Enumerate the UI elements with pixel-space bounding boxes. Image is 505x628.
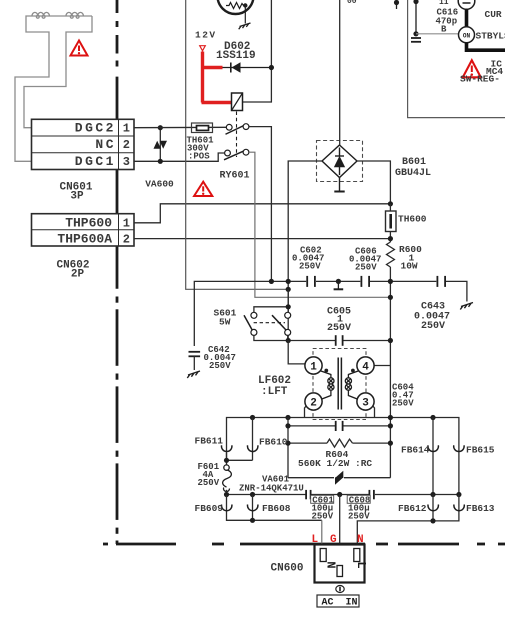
svg-text:250V: 250V	[198, 478, 220, 488]
label C602	[292, 246, 324, 272]
label C642	[204, 345, 236, 371]
resistor R600	[387, 242, 395, 267]
degauss coil L2	[66, 12, 83, 18]
label C606	[349, 247, 381, 273]
node y297 junction	[388, 295, 393, 300]
svg-text:FB612: FB612	[398, 503, 427, 514]
wire bridge top AC input	[339, 0, 341, 145]
svg-text:560K 1/2W :RC: 560K 1/2W :RC	[298, 458, 372, 469]
LF602 pin 4	[357, 357, 374, 374]
capacitor C643	[437, 276, 445, 287]
wire bridge right output	[357, 161, 390, 204]
svg-text:FB609: FB609	[195, 503, 224, 514]
wire DGC1 pin3 to RY601 switch2	[134, 153, 225, 161]
ferrite bead FB610	[248, 418, 258, 461]
transformer LF602 dashed box	[313, 349, 366, 420]
label F601 4A 250V	[198, 462, 220, 488]
svg-text:SW-REG-: SW-REG-	[460, 74, 500, 85]
wire left rail x288	[287, 418, 289, 478]
svg-text:1: 1	[310, 362, 317, 374]
capacitor C602	[307, 276, 315, 287]
wire 12V red feed	[202, 52, 232, 103]
partial text fragments at top edge	[347, 0, 449, 7]
node y281 junctions	[269, 279, 274, 284]
wire pin2 connection down	[305, 406, 307, 418]
label IC MC4 SW-REG	[460, 59, 503, 85]
bridge rectifier B601 dashed box	[317, 141, 363, 182]
svg-text:1SS119: 1SS119	[216, 50, 256, 62]
node y417 junctions	[250, 415, 255, 420]
varistor VA600	[154, 125, 168, 164]
wire CN600 G feed	[339, 495, 341, 566]
wire 12V switched line (x271)	[243, 0, 272, 102]
label C643	[414, 302, 450, 333]
label CN601 3P	[59, 182, 92, 203]
label LF602 :LFT	[258, 375, 291, 398]
svg-text:2: 2	[310, 398, 317, 410]
svg-text:DGC1: DGC1	[75, 154, 116, 169]
svg-text:250V: 250V	[421, 321, 445, 332]
svg-text:FB613: FB613	[466, 503, 495, 514]
wire filter line y281	[194, 281, 467, 346]
LF602 pin 2	[305, 393, 322, 410]
capacitor C616	[411, 0, 421, 42]
svg-text:10W: 10W	[401, 261, 418, 272]
svg-text:B601: B601	[402, 157, 426, 168]
node C605 ends	[286, 338, 291, 343]
thick wire pin to STBY circle	[465, 10, 469, 28]
label C608 100u 250V (boxed)	[347, 495, 370, 521]
LF602 pin 3	[357, 393, 374, 410]
svg-text:GBU4JL: GBU4JL	[395, 168, 431, 179]
label TH601 300V :POS	[187, 136, 215, 162]
svg-text:DGC2: DGC2	[75, 121, 116, 136]
svg-text:NC: NC	[95, 137, 116, 152]
ferrite bead FB614	[428, 418, 438, 495]
svg-text:4: 4	[362, 362, 369, 374]
degauss coil loop wiring	[15, 16, 92, 161]
label R604 560K 1/2W :RC	[298, 449, 372, 469]
label S601 5W	[214, 308, 237, 328]
diode D602	[223, 62, 272, 72]
label R600 1 10W	[399, 244, 422, 272]
wire relay sw2 output	[249, 152, 390, 297]
top right block box	[408, 0, 505, 118]
wire THP600 pin1 to main line	[134, 204, 390, 223]
node bridge output / main line	[388, 201, 393, 206]
svg-text:250V: 250V	[348, 511, 370, 521]
svg-text::POS: :POS	[188, 152, 210, 162]
resistor R604	[288, 439, 390, 447]
svg-text:250V: 250V	[327, 323, 351, 334]
svg-text:250V: 250V	[355, 263, 377, 273]
wire secondary top line y417	[227, 418, 459, 495]
wire pin4 connection	[373, 365, 390, 367]
svg-text:FB611: FB611	[195, 436, 224, 447]
label CN602 2P	[56, 259, 89, 280]
label C601 100u 250V (boxed)	[311, 495, 335, 521]
svg-text:1: 1	[123, 216, 130, 230]
node TH600/R600 junction	[388, 236, 393, 241]
relay coil RY601	[232, 93, 243, 157]
svg-text:STBYLS: STBYLS	[476, 31, 505, 42]
svg-text:ON: ON	[463, 32, 471, 39]
thermistor TH600	[386, 204, 397, 242]
svg-text:FB614: FB614	[401, 445, 430, 456]
capacitor C601	[306, 490, 311, 499]
capacitor C608	[369, 490, 374, 499]
warning triangle (top right)	[463, 60, 481, 77]
boundary dash-dot vertical line	[116, 0, 119, 544]
ferrite bead FB608	[248, 495, 258, 521]
ferrite bead FB613	[357, 495, 464, 549]
wire THP600A pin2 line	[134, 238, 390, 240]
label B601 GBU4JL	[395, 157, 431, 179]
svg-text:250V: 250V	[299, 262, 321, 272]
svg-text:2: 2	[123, 232, 130, 246]
svg-text:RY601: RY601	[220, 171, 250, 182]
wire AC input vertical (left)	[186, 0, 289, 289]
connector CN601	[32, 119, 135, 169]
varistor VA601	[288, 471, 390, 485]
ground (C642)	[187, 371, 200, 378]
svg-text:CN600: CN600	[271, 563, 304, 575]
svg-text:11: 11	[439, 0, 449, 7]
wire CN600 N feed	[321, 520, 323, 548]
posistor circle component (top)	[218, 0, 254, 24]
12V supply arrow (red)	[200, 46, 206, 51]
svg-text:ZNR-14QK471U: ZNR-14QK471U	[239, 484, 304, 494]
svg-text:N: N	[323, 561, 337, 568]
capacitor C604	[288, 421, 390, 431]
wire C616 to STBY circle	[416, 33, 459, 35]
ferrite bead FB611	[222, 445, 232, 451]
svg-text:THP600A: THP600A	[57, 231, 112, 246]
label VA601 ZNR-14QK471U	[239, 475, 304, 494]
capacitor C642	[189, 352, 201, 357]
connector CN602	[32, 214, 135, 247]
degauss coil L1	[32, 12, 49, 18]
svg-text:AC IN: AC IN	[322, 598, 358, 609]
earth symbol below CN600	[336, 586, 344, 593]
connector CN600	[315, 545, 369, 583]
svg-text:3: 3	[362, 398, 369, 410]
LF602 pin 1	[305, 357, 322, 374]
svg-text:1: 1	[123, 122, 130, 136]
ground (below posistor)	[239, 23, 251, 29]
svg-text:TH600: TH600	[398, 214, 427, 225]
svg-text:250V: 250V	[392, 399, 414, 409]
wire mains line y494	[227, 494, 459, 496]
label AC IN (boxed)	[317, 595, 359, 609]
label C605 1 250V	[327, 307, 351, 335]
svg-text:FB615: FB615	[466, 445, 495, 456]
node y289 junction	[286, 287, 291, 292]
svg-text:00: 00	[347, 0, 357, 6]
LF602 core	[338, 358, 341, 410]
svg-text:THP600: THP600	[65, 215, 112, 230]
svg-text:VA600: VA600	[145, 179, 174, 190]
bridge minus terminal	[334, 178, 344, 192]
fuse F601	[223, 465, 232, 495]
svg-text:FB608: FB608	[262, 503, 291, 514]
warning triangle (near RY601)	[194, 182, 212, 196]
node D602 junction	[269, 65, 274, 70]
relay switch 1 (RY601)	[226, 124, 249, 135]
bridge rectifier B601 diamond	[322, 145, 357, 178]
svg-text:CUR: CUR	[485, 9, 502, 20]
ferrite bead FB615	[454, 445, 464, 451]
svg-text:L: L	[354, 561, 368, 568]
LF602 polarity dots	[324, 369, 328, 373]
svg-text::LFT: :LFT	[261, 386, 288, 398]
relay switch 2 (RY601)	[224, 149, 249, 160]
svg-text:2P: 2P	[71, 268, 85, 280]
switch S601	[244, 289, 291, 340]
label C616 470p B	[436, 8, 459, 35]
thick wire STBY output	[467, 43, 505, 50]
ferrite bead FB609	[222, 495, 322, 521]
wire relay sw1 output	[249, 127, 271, 282]
label D602 1SS119	[216, 41, 256, 62]
svg-text:12V: 12V	[195, 30, 217, 41]
svg-text:5W: 5W	[219, 317, 231, 328]
wire pin3 connection down	[373, 406, 375, 418]
svg-text:2: 2	[123, 138, 130, 152]
thermistor TH601	[134, 123, 226, 133]
ferrite bead FB612	[428, 495, 438, 521]
svg-text:B: B	[441, 25, 447, 35]
wire FB611/FB610 junction line	[227, 453, 253, 465]
wire bridge left AC input	[288, 161, 322, 341]
svg-text:3P: 3P	[70, 191, 84, 203]
svg-text:FB610: FB610	[259, 437, 288, 448]
pin circle minus (top right)	[458, 0, 475, 9]
capacitor C606	[361, 276, 369, 287]
wire stub (top)	[394, 0, 399, 9]
LF602 secondary winding	[345, 371, 359, 400]
capacitor C605	[288, 335, 390, 346]
wire pin1 connection	[288, 341, 306, 364]
wire R600 to rail	[389, 267, 391, 478]
terminal stub (below y281)	[334, 281, 344, 289]
svg-text:3: 3	[123, 155, 130, 169]
boundary dash horizontal line	[103, 543, 505, 546]
ground (C643)	[460, 303, 473, 310]
svg-text:250V: 250V	[209, 361, 231, 371]
pin circle ON (STBYLS)	[459, 27, 475, 43]
warning triangle (top left)	[71, 41, 88, 56]
node y494 junctions	[224, 492, 229, 497]
wire C642 to ground	[193, 356, 195, 370]
LF602 primary winding	[320, 371, 335, 400]
label C604 0.47 250V	[392, 383, 414, 409]
